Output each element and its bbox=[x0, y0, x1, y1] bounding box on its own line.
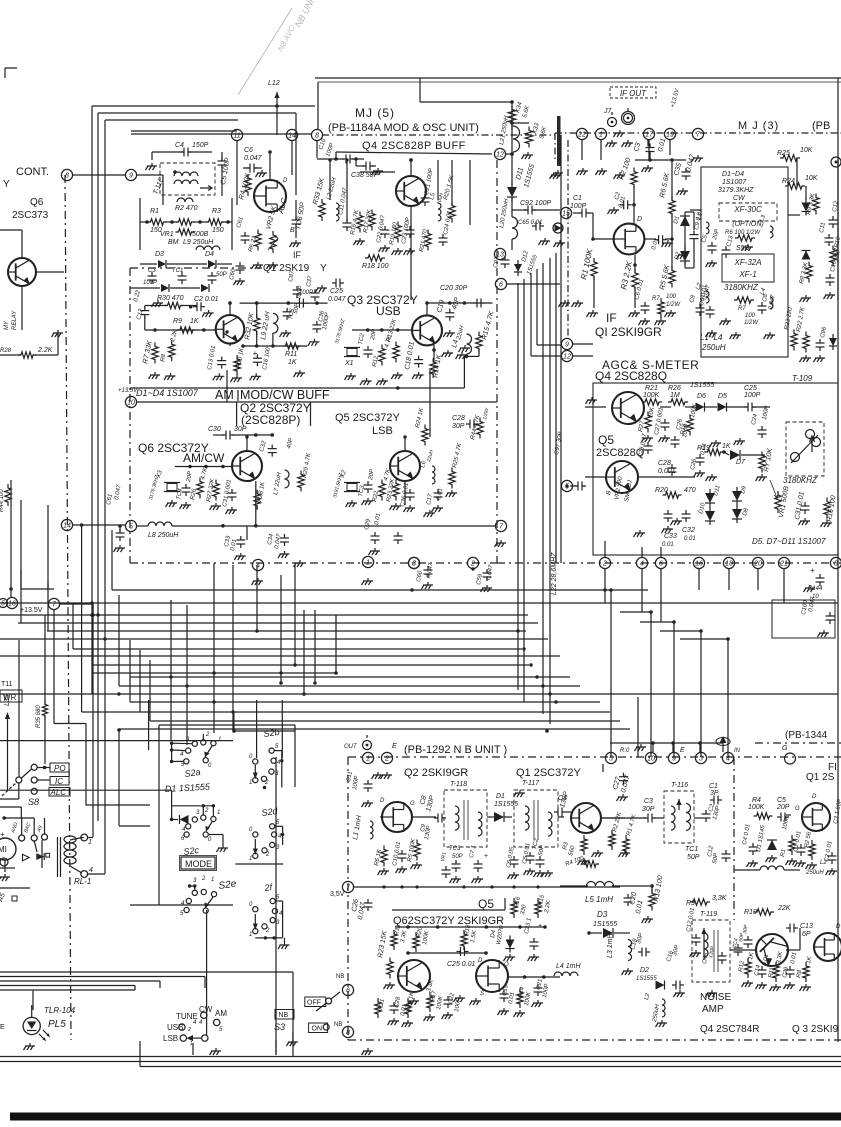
capacitor C9 0.01 bbox=[690, 234, 699, 236]
wire noise amp bbox=[730, 949, 756, 951]
ground bbox=[218, 845, 228, 848]
wire AGC entry bbox=[585, 406, 606, 408]
wire bbox=[647, 140, 649, 146]
capacitor 50P bbox=[208, 275, 217, 277]
node 4 bbox=[636, 557, 647, 568]
wire IF OUT rail bbox=[315, 77, 841, 79]
svg-text:RL-1: RL-1 bbox=[74, 877, 91, 886]
FET Q1 2SK19GR bbox=[614, 224, 645, 255]
svg-text:250uH: 250uH bbox=[805, 870, 824, 876]
capacitor C8 0.047 bbox=[758, 305, 767, 307]
svg-text:T-117: T-117 bbox=[522, 780, 540, 787]
resistor R29 4.7K bbox=[298, 471, 304, 492]
wire bbox=[172, 525, 495, 527]
capacitor C59 0.047 bbox=[483, 572, 492, 574]
resistor R18 100 bbox=[365, 255, 385, 261]
svg-text:Q62SC372Y 2SKI9GR: Q62SC372Y 2SKI9GR bbox=[393, 915, 504, 927]
svg-text:(PB-1344: (PB-1344 bbox=[785, 730, 828, 741]
svg-text:1: 1 bbox=[366, 756, 370, 763]
svg-text:D: D bbox=[380, 798, 385, 804]
svg-text:1S1555: 1S1555 bbox=[494, 801, 518, 808]
svg-text:1: 1 bbox=[211, 877, 214, 883]
wire collector rail q3 bbox=[426, 303, 428, 315]
svg-text:C1: C1 bbox=[573, 195, 582, 202]
svg-text:BM: BM bbox=[168, 239, 179, 246]
svg-text:PO: PO bbox=[54, 764, 66, 773]
ground bbox=[707, 260, 717, 263]
svg-text:IC: IC bbox=[55, 777, 63, 786]
wire bbox=[581, 140, 583, 160]
wire bbox=[269, 152, 271, 180]
filter XF-32A box bbox=[722, 254, 774, 282]
resistor R18 100K bbox=[687, 415, 693, 436]
svg-text:30P: 30P bbox=[642, 806, 655, 813]
svg-text:C28: C28 bbox=[658, 460, 671, 467]
node 5 nb bbox=[605, 752, 616, 763]
extra grounds bbox=[663, 240, 673, 243]
svg-text:R35 680: R35 680 bbox=[36, 705, 42, 728]
wire rail 388 bbox=[130, 387, 464, 389]
left unit boundary bbox=[65, 175, 71, 1040]
contacts AND BAC A9 bbox=[19, 835, 25, 841]
shield G bbox=[785, 753, 796, 764]
svg-text:21: 21 bbox=[779, 561, 788, 568]
capacitor C2 130P bbox=[702, 813, 711, 815]
microphone MI bbox=[0, 838, 16, 860]
capacitor C6 0.01b bbox=[641, 305, 650, 307]
node 19 bbox=[664, 128, 675, 139]
label WR boxed bbox=[0, 690, 22, 702]
ground bbox=[115, 545, 125, 548]
coil L9 bbox=[196, 246, 220, 250]
capacitor C36 1000P bbox=[312, 324, 321, 326]
svg-text:50P: 50P bbox=[452, 854, 463, 860]
resistor R16 4.7K bbox=[357, 212, 363, 233]
svg-text:8: 8 bbox=[315, 133, 319, 140]
ground bbox=[236, 553, 246, 556]
transistor Q5 2SC828Q bbox=[606, 461, 638, 493]
node 7 bbox=[692, 128, 703, 139]
wire bbox=[507, 283, 560, 285]
label MODE boxed bbox=[181, 857, 215, 869]
label OFF boxed bbox=[305, 997, 326, 1007]
relay RL-1 bbox=[57, 837, 59, 877]
svg-text:AM/CW: AM/CW bbox=[183, 451, 225, 465]
svg-text:3,3K: 3,3K bbox=[712, 895, 727, 902]
filter section box bbox=[701, 167, 788, 357]
wire bbox=[206, 910, 208, 960]
ground bbox=[579, 858, 589, 861]
svg-text:R2 470: R2 470 bbox=[175, 205, 198, 212]
svg-text:50P: 50P bbox=[216, 272, 227, 278]
svg-text:4: 4 bbox=[726, 756, 730, 763]
svg-text:3: 3 bbox=[699, 756, 703, 763]
svg-text:OUT: OUT bbox=[344, 744, 358, 750]
resistor R7 33K bbox=[152, 343, 158, 364]
svg-text:L22 28,6MHZ: L22 28,6MHZ bbox=[551, 552, 558, 595]
ground bbox=[257, 170, 267, 173]
svg-text:C2 0.01: C2 0.01 bbox=[194, 296, 219, 303]
wire bbox=[73, 174, 125, 176]
ground bbox=[147, 163, 157, 166]
resistor R2 100 bbox=[631, 168, 637, 189]
jack out bbox=[363, 741, 372, 750]
svg-text:16: 16 bbox=[695, 561, 703, 568]
svg-text:2: 2 bbox=[265, 928, 270, 934]
inductor L3 bbox=[770, 226, 773, 238]
left column caps bbox=[10, 480, 12, 598]
black bottom bar bbox=[10, 1113, 841, 1121]
svg-text:5: 5 bbox=[609, 756, 613, 763]
svg-text:19: 19 bbox=[666, 132, 674, 139]
svg-text:2: 2 bbox=[264, 780, 269, 786]
svg-text:R1: R1 bbox=[150, 208, 159, 215]
resistor K34 5.6K bbox=[508, 106, 516, 127]
svg-text:100P: 100P bbox=[744, 392, 761, 399]
svg-text:ALC: ALC bbox=[50, 788, 67, 797]
ground row bbox=[743, 980, 753, 983]
svg-text:C25: C25 bbox=[330, 288, 343, 295]
label ON boxed bbox=[309, 1023, 328, 1033]
capacitor C25 0.047 bbox=[335, 279, 337, 288]
wire bbox=[317, 82, 319, 129]
svg-text:18: 18 bbox=[725, 561, 733, 568]
svg-text:150P: 150P bbox=[192, 142, 209, 149]
transistor Q4 2SC828P bbox=[396, 176, 426, 206]
resistor R19 180 bbox=[395, 222, 401, 243]
node 14 bbox=[286, 129, 297, 140]
capacitor C8 0.047 bbox=[696, 307, 705, 309]
resistor R35 680 bbox=[42, 701, 47, 720]
svg-text:ON: ON bbox=[312, 1026, 323, 1033]
wire bbox=[31, 1005, 33, 1017]
node 15 bbox=[560, 207, 571, 218]
capacitor C5 100P bbox=[218, 160, 227, 162]
ground bbox=[281, 330, 291, 333]
node 5 bbox=[125, 520, 136, 531]
svg-text:C30: C30 bbox=[208, 426, 221, 433]
svg-text:(PB-1292 N B UNIT ): (PB-1292 N B UNIT ) bbox=[404, 744, 507, 756]
capacitor C11 bbox=[825, 237, 834, 239]
svg-text:G: G bbox=[782, 745, 788, 752]
diode D2 bbox=[680, 251, 690, 261]
diode D6 bbox=[696, 403, 705, 412]
inductor L9 22uH bbox=[273, 313, 278, 333]
node 21 bbox=[778, 557, 789, 568]
ground bbox=[167, 500, 177, 503]
capacitor C29 0.01 bbox=[371, 535, 380, 537]
svg-text:Q4 2SC828P BUFF: Q4 2SC828P BUFF bbox=[362, 140, 466, 152]
svg-text:8: 8 bbox=[65, 173, 69, 180]
IF OUT label bbox=[610, 87, 656, 98]
diode D8 bbox=[732, 509, 742, 519]
wire emitter rail bbox=[243, 345, 307, 347]
wire bbox=[796, 158, 798, 186]
ground bbox=[643, 165, 653, 168]
wire bbox=[18, 640, 20, 777]
resistor R24 1K bbox=[422, 425, 428, 446]
ground bbox=[607, 140, 617, 143]
wire bbox=[420, 101, 512, 103]
label box bbox=[236, 402, 238, 426]
transistor Q5 bbox=[390, 451, 420, 481]
ground bbox=[232, 375, 242, 378]
inductor L1 bbox=[706, 222, 709, 234]
wire bbox=[570, 485, 578, 487]
wire bbox=[57, 333, 59, 355]
resistor R10 1K bbox=[234, 355, 240, 375]
wire bbox=[506, 153, 512, 155]
wire bbox=[34, 841, 37, 852]
unit top boundary dash bbox=[322, 134, 555, 136]
ground bbox=[805, 585, 815, 588]
ground bbox=[204, 310, 214, 313]
svg-text:L35: L35 bbox=[4, 694, 11, 706]
svg-text:QI 2SKI9GR: QI 2SKI9GR bbox=[595, 325, 662, 339]
wire bbox=[130, 904, 159, 906]
capacitor C33 0.01 bbox=[236, 539, 245, 541]
svg-text:0.01: 0.01 bbox=[662, 542, 674, 548]
switch arrow bbox=[188, 1037, 202, 1039]
svg-text:1: 1 bbox=[249, 932, 252, 938]
svg-text:1/2W: 1/2W bbox=[666, 302, 681, 308]
wire bbox=[291, 128, 293, 141]
wire bbox=[634, 160, 636, 170]
svg-text:3: 3 bbox=[412, 561, 416, 568]
svg-text:8: 8 bbox=[346, 1030, 350, 1037]
capacitor C26 0.01 bbox=[696, 457, 705, 459]
ground bbox=[253, 578, 263, 581]
extra wires bottom bbox=[32, 990, 34, 1010]
ground bbox=[609, 207, 619, 210]
resistor R27 22K bbox=[213, 480, 219, 501]
resistor R7 100 1/2W bbox=[658, 298, 664, 318]
transistor Q6 2SC373 bbox=[8, 258, 36, 286]
node 14 left bbox=[61, 519, 72, 530]
svg-text:NOISE: NOISE bbox=[700, 992, 731, 1003]
node bbox=[0, 858, 8, 866]
diode bbox=[802, 251, 811, 260]
svg-text:C38 50P: C38 50P bbox=[351, 172, 379, 179]
wire NB rails bbox=[392, 909, 505, 911]
ground bbox=[423, 582, 433, 585]
wire bbox=[601, 817, 625, 819]
ground bbox=[801, 295, 811, 298]
wire base rail q3 bbox=[352, 329, 412, 331]
IF unit left boundary bbox=[567, 140, 569, 338]
node 9 agc bbox=[561, 338, 572, 349]
svg-text:L5 1mH: L5 1mH bbox=[585, 895, 613, 904]
capacitor C3 0.01 bbox=[646, 147, 655, 149]
diode D10 bbox=[705, 511, 715, 521]
svg-text:C20 30P: C20 30P bbox=[440, 285, 468, 292]
trimmer TC5 50P bbox=[283, 311, 292, 313]
svg-text:D: D bbox=[283, 178, 288, 184]
svg-text:E: E bbox=[0, 1024, 5, 1031]
svg-text:2: 2 bbox=[201, 876, 206, 882]
NB unit boundary PB-1292 bbox=[348, 756, 841, 758]
node 6 bbox=[495, 278, 506, 289]
capacitor C24 0.01 bbox=[439, 237, 448, 239]
svg-text:4: 4 bbox=[640, 561, 644, 568]
switch arrow bbox=[254, 914, 256, 924]
svg-text:OFF: OFF bbox=[307, 1000, 321, 1007]
svg-text:IF: IF bbox=[606, 311, 617, 325]
wire bbox=[44, 615, 46, 704]
diode D1 bbox=[680, 216, 690, 226]
svg-text:C13: C13 bbox=[800, 923, 813, 930]
svg-text:R4: R4 bbox=[752, 797, 761, 804]
svg-text:1/2W: 1/2W bbox=[744, 320, 759, 326]
svg-text:R25: R25 bbox=[777, 150, 790, 157]
resistor R1 100K bbox=[591, 258, 597, 280]
capacitor C65 0.01 bbox=[535, 222, 537, 231]
LED PL5 TLR-104 bbox=[23, 1017, 40, 1034]
resistor R6 1K bbox=[381, 846, 387, 867]
label ALC boxed bbox=[49, 788, 70, 797]
ground bbox=[370, 548, 380, 551]
wire bbox=[0, 740, 233, 742]
svg-text:D5. D7~D11 1S1007: D5. D7~D11 1S1007 bbox=[752, 537, 826, 546]
inductor L9 coil bbox=[177, 198, 193, 202]
inductor L2 bbox=[706, 291, 709, 303]
potentiometer VR1 500B bbox=[176, 229, 195, 235]
svg-text:3180KHZ: 3180KHZ bbox=[724, 283, 759, 292]
node 2b bbox=[467, 557, 478, 568]
diode D11 bbox=[705, 493, 715, 503]
resistor R23 22K bbox=[393, 480, 399, 501]
node 20 bbox=[752, 557, 763, 568]
svg-text:MOD/CW BUFF: MOD/CW BUFF bbox=[240, 388, 330, 402]
switch body wire bbox=[18, 783, 20, 799]
jack bbox=[831, 157, 841, 167]
svg-text:1S1555: 1S1555 bbox=[690, 382, 714, 389]
capacitor C96 bbox=[816, 342, 825, 344]
svg-text:14: 14 bbox=[63, 523, 71, 530]
svg-text:2: 2 bbox=[187, 1027, 191, 1033]
wire bbox=[734, 869, 760, 871]
wire bbox=[329, 160, 331, 200]
svg-text:100: 100 bbox=[666, 294, 677, 300]
ground bbox=[53, 330, 63, 333]
resistor R25 4.7K bbox=[449, 468, 455, 489]
capacitor C97 bbox=[501, 259, 510, 261]
svg-text:R:0: R:0 bbox=[620, 748, 630, 754]
wire drops to NB unit bbox=[610, 590, 612, 757]
wire bbox=[140, 263, 157, 265]
wire bbox=[466, 303, 468, 334]
svg-text:22K: 22K bbox=[777, 905, 791, 912]
svg-text:5: 5 bbox=[1, 601, 5, 608]
wire bbox=[295, 113, 297, 195]
small square bbox=[12, 896, 17, 901]
resistor R10 27K bbox=[830, 246, 836, 267]
svg-text:2: 2 bbox=[470, 561, 475, 568]
wire entries bbox=[0, 806, 21, 808]
wire right edge vertical bbox=[837, 160, 839, 300]
node 5 agc bbox=[561, 480, 572, 491]
svg-text:30P: 30P bbox=[452, 423, 465, 430]
svg-text:L3 1mH: L3 1mH bbox=[607, 933, 614, 958]
junction dots bbox=[90, 613, 94, 617]
svg-text:MODE: MODE bbox=[185, 859, 212, 869]
node 2 nb bbox=[381, 752, 392, 763]
svg-text:CW: CW bbox=[733, 195, 746, 202]
ground bbox=[801, 355, 811, 358]
wire bbox=[644, 407, 645, 409]
ground bbox=[288, 1039, 298, 1042]
svg-text:T-109: T-109 bbox=[792, 374, 813, 383]
ground bbox=[310, 339, 320, 342]
svg-text:IF OUT: IF OUT bbox=[620, 89, 647, 98]
node 10 nb bbox=[645, 752, 656, 763]
IN arrow bbox=[716, 738, 730, 746]
wire bbox=[684, 212, 686, 216]
wire bbox=[638, 476, 695, 478]
svg-text:1: 1 bbox=[249, 780, 252, 786]
filter XF-30C dashed box bbox=[719, 203, 777, 221]
transistor Q4 2SC828Q bbox=[612, 392, 644, 424]
svg-text:15: 15 bbox=[562, 211, 570, 218]
svg-text:3,5V: 3,5V bbox=[330, 891, 345, 898]
svg-text:6: 6 bbox=[499, 282, 503, 289]
svg-text:T11: T11 bbox=[1, 681, 13, 688]
wire NB connects bbox=[412, 816, 436, 818]
ground bbox=[636, 744, 646, 747]
connector shield bar bbox=[557, 116, 561, 166]
resistor R12 4.7K bbox=[379, 345, 385, 366]
node 3 bbox=[408, 557, 419, 568]
node 6 bbox=[655, 557, 666, 568]
capacitor C31 0.001 bbox=[228, 492, 237, 494]
diode bbox=[829, 338, 837, 346]
svg-text:+: + bbox=[810, 566, 815, 575]
ground bbox=[25, 1043, 35, 1046]
resistor R26 4.7K bbox=[197, 478, 203, 499]
C100 box bbox=[772, 600, 835, 638]
resistor R9 3.3K bbox=[813, 194, 819, 215]
resistor R16 100 bbox=[824, 498, 830, 519]
resistor R5 100K bbox=[414, 840, 420, 861]
svg-text:MI: MI bbox=[0, 845, 7, 854]
ground bbox=[748, 860, 758, 863]
resistor R21 470 bbox=[425, 230, 431, 251]
wire bbox=[53, 683, 55, 724]
crystal X1 bbox=[344, 347, 360, 349]
svg-text:AM: AM bbox=[215, 1009, 227, 1018]
wire bbox=[119, 526, 121, 532]
svg-text:100K: 100K bbox=[748, 804, 765, 811]
switch contacts bbox=[326, 998, 332, 1004]
resistor R32 10K bbox=[254, 314, 260, 335]
resistor R6 22 bbox=[255, 230, 261, 251]
svg-text:1M: 1M bbox=[670, 392, 680, 399]
capacitor C18 0.01 bbox=[826, 277, 835, 279]
wire stubs above node row bbox=[604, 541, 606, 557]
ground bbox=[588, 310, 598, 313]
svg-text:C4: C4 bbox=[175, 142, 184, 149]
wire bundle vertical bbox=[517, 283, 519, 690]
svg-text:L4 1mH: L4 1mH bbox=[556, 963, 581, 970]
svg-text:D2: D2 bbox=[640, 967, 649, 974]
svg-text:C5: C5 bbox=[777, 797, 786, 804]
svg-text:C65 0.01: C65 0.01 bbox=[518, 220, 542, 226]
svg-text:C28: C28 bbox=[452, 415, 465, 422]
resistor R13 22K bbox=[393, 342, 399, 363]
wire bbox=[651, 886, 653, 893]
diode bbox=[802, 203, 811, 212]
svg-text:LSB: LSB bbox=[163, 1034, 178, 1043]
